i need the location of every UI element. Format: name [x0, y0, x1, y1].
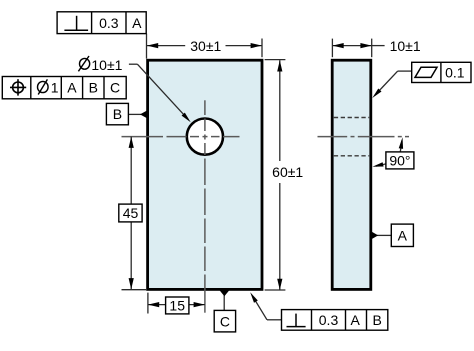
FCF position frame [2, 77, 126, 99]
FCF bottom perpendicularity symbol [287, 314, 306, 327]
hole callout arrow [182, 113, 191, 123]
hole [187, 119, 223, 155]
FCF perpendicularity bottom leader [253, 296, 282, 320]
svg-text:A: A [398, 227, 408, 243]
dimension 30 arrows [147, 43, 262, 48]
svg-text:10±1: 10±1 [91, 57, 122, 73]
FCF perpendicularity top frame [57, 12, 146, 34]
dimension 30 extension left / FCF connector [146, 34, 148, 59]
dimension 10 extension left [331, 39, 333, 58]
svg-text:0.3: 0.3 [99, 15, 119, 31]
dimension 10 extension right [371, 39, 373, 58]
dimension 45 extension bottom [122, 289, 147, 291]
FCF flatness leader [375, 71, 412, 95]
hole callout diameter symbol [78, 56, 89, 71]
hidden line lower [334, 155, 369, 157]
FCF perpendicularity bottom frame [282, 310, 388, 331]
angle 90 arrow up [399, 137, 403, 149]
angle 90 arrow left [372, 162, 383, 167]
svg-text:C: C [220, 313, 230, 329]
svg-text:B: B [89, 80, 98, 96]
FCF top perpendicularity symbol [64, 16, 88, 30]
dimension 15 basic box [166, 297, 189, 314]
FCF position symbol [10, 79, 26, 95]
side view centerline [318, 136, 410, 138]
dimension 30 extension right [261, 39, 263, 58]
svg-text:30±1: 30±1 [190, 38, 221, 54]
dimension 45 arrows [129, 137, 134, 290]
dimension 30 line [147, 45, 262, 47]
dimension 60 extension top [265, 59, 286, 61]
datum A symbol [371, 224, 414, 246]
svg-text:C: C [110, 80, 120, 96]
dimension 15 extension left [147, 293, 149, 314]
dimension 60 line [279, 60, 281, 290]
FCF bottom leader arrow [250, 292, 258, 303]
svg-text:90°: 90° [389, 152, 410, 168]
svg-text:45: 45 [123, 205, 139, 221]
front view plate [148, 60, 262, 289]
angle 90 leader to face [376, 164, 386, 166]
dimension 60 extension bottom [265, 289, 286, 291]
angle 90 leader to centerline [400, 141, 402, 152]
svg-text:A: A [351, 312, 361, 328]
FCF position tolerance diameter symbol [38, 79, 49, 94]
hole callout leader [129, 64, 188, 119]
svg-text:A: A [132, 15, 142, 31]
svg-text:A: A [67, 80, 77, 96]
hole centerline horizontal [122, 136, 240, 138]
side view plate [332, 60, 371, 289]
hole centerline vertical [204, 100, 206, 312]
dimension 10 arrows [332, 43, 371, 48]
svg-text:0.1: 0.1 [445, 65, 465, 81]
svg-text:60±1: 60±1 [272, 164, 303, 180]
svg-text:1: 1 [51, 80, 59, 96]
dimension 45 line [130, 137, 132, 290]
FCF flatness leader arrow [372, 89, 381, 99]
svg-text:15: 15 [169, 298, 185, 314]
dimension 45 basic box [119, 204, 142, 222]
FCF flatness symbol [415, 67, 437, 77]
dimension 15 line [148, 304, 205, 306]
svg-text:B: B [373, 312, 382, 328]
dimension 15 arrows [148, 302, 205, 307]
hidden line upper [334, 117, 369, 119]
svg-text:0.3: 0.3 [319, 312, 339, 328]
svg-text:B: B [113, 106, 122, 122]
datum B symbol [106, 103, 147, 124]
dimension 10 line [332, 45, 384, 47]
FCF flatness frame [412, 62, 471, 82]
datum C symbol [214, 290, 235, 332]
angle 90 basic box [386, 152, 414, 169]
svg-text:10±1: 10±1 [390, 38, 421, 54]
dimension 60 arrows [277, 60, 282, 290]
